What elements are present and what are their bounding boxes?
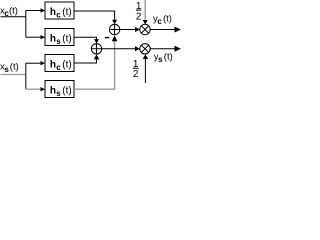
arrow into multiplier M2: [135, 46, 140, 51]
filter H4 box hs(t): [45, 81, 74, 98]
wire xc to hc top branch: [26, 10, 41, 12]
svg-text:(t): (t): [10, 61, 19, 72]
svg-text:s: s: [56, 37, 61, 46]
arrow down into M1 top: [143, 20, 148, 25]
arrow up into M2 bottom: [143, 54, 148, 59]
svg-text:h: h: [50, 7, 56, 18]
svg-text:(t): (t): [164, 52, 173, 63]
arrow into filter H4: [41, 87, 46, 91]
svg-text:(t): (t): [62, 33, 71, 44]
svg-text:2: 2: [136, 11, 142, 22]
filter H2 box hs(t): [45, 29, 74, 46]
arrow output yc: [175, 27, 182, 33]
svg-text:h: h: [50, 33, 56, 44]
wire H4 output up to summer S1 bottom (gray): [74, 39, 115, 89]
wire xs to hc branch: [26, 62, 41, 64]
svg-text:c: c: [56, 63, 61, 72]
arrow down into summer S2: [94, 39, 99, 44]
svg-text:h: h: [50, 59, 56, 70]
summer S2: [91, 44, 101, 54]
arrow into multiplier M1: [135, 27, 140, 32]
multiplier M2: [140, 44, 150, 54]
wire H2 output to summer S2 top: [74, 37, 97, 39]
wire M1 output: [150, 29, 175, 31]
minus sign at S1 lower input: [105, 37, 109, 39]
node xs label: [0, 61, 19, 74]
node ys label: [154, 52, 173, 65]
wire xc split vertical: [25, 11, 27, 38]
multiplier M1: [140, 24, 150, 34]
svg-text:(t): (t): [62, 59, 71, 70]
svg-text:s: s: [158, 55, 163, 64]
arrow into filter H2: [41, 35, 46, 39]
svg-text:s: s: [4, 65, 9, 74]
svg-text:2: 2: [133, 69, 139, 80]
wire xs to hs branch: [26, 88, 41, 90]
arrow output ys: [175, 46, 182, 52]
wire xc input horizontal: [1, 16, 26, 18]
filter H1 box hc(t): [45, 2, 74, 19]
svg-text:(t): (t): [9, 6, 18, 17]
wire S2 output to multiplier M2: [102, 48, 136, 50]
node yc label: [153, 13, 172, 26]
wire xs split vertical: [25, 63, 27, 89]
wire xc to hs branch: [26, 36, 41, 38]
wire M2 output: [150, 48, 175, 50]
svg-text:c: c: [56, 10, 61, 19]
svg-text:(t): (t): [163, 13, 172, 24]
label 1/2 gain for M2: [133, 59, 139, 80]
svg-text:c: c: [157, 17, 162, 26]
arrow into filter H3: [41, 61, 46, 65]
filter H3 box hc(t): [45, 55, 74, 72]
label 1/2 gain for M1: [136, 1, 142, 23]
wire H3 output up to summer S2 bottom: [74, 59, 97, 63]
wire S1 output to multiplier M1: [120, 29, 136, 31]
wire H1 output to summer S1 top: [74, 11, 115, 20]
wire 1/2 up into M2 (gray): [144, 58, 146, 83]
arrow up into summer S2 bottom: [94, 54, 99, 59]
wire 1/2 down into M1 (gray): [144, 0, 146, 20]
wire xs input horizontal: [1, 74, 26, 76]
arrow down into summer S1: [112, 20, 117, 25]
svg-text:s: s: [56, 89, 61, 98]
arrow into filter H1: [41, 8, 46, 12]
arrow up into summer S1 bottom: [112, 36, 118, 42]
svg-text:(t): (t): [62, 7, 71, 18]
node xc label: [0, 6, 18, 19]
svg-text:(t): (t): [62, 85, 71, 96]
summer S1: [109, 24, 119, 34]
svg-text:h: h: [50, 85, 56, 96]
